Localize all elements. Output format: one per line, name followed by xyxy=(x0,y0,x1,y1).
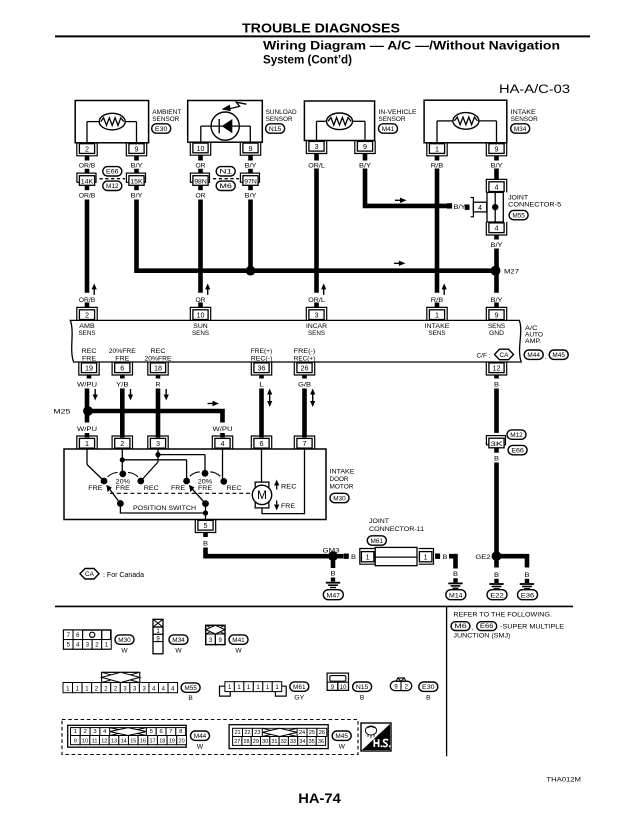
contact 20%FRE1 xyxy=(108,471,138,493)
ambient sensor label xyxy=(152,109,181,123)
svg-text:GND: GND xyxy=(489,330,504,337)
svg-text:20%FRE: 20%FRE xyxy=(109,348,137,355)
svg-text:OR/L: OR/L xyxy=(308,162,325,169)
svg-text:5: 5 xyxy=(204,521,208,530)
svg-text:B: B xyxy=(494,382,499,389)
connector refs M44 M45 xyxy=(524,350,568,361)
connector ref M34 oval xyxy=(169,635,188,654)
svg-text:GE2: GE2 xyxy=(475,554,491,561)
junction GM3 xyxy=(323,547,341,561)
svg-text:THA012M: THA012M xyxy=(546,776,581,783)
svg-text:SENSOR: SENSOR xyxy=(511,116,538,123)
svg-text:M44: M44 xyxy=(194,733,207,740)
svg-text:M61: M61 xyxy=(371,538,384,545)
connector ref M44 oval xyxy=(191,731,210,751)
wire OR/B ambient to amp pin 2 xyxy=(85,200,90,293)
svg-text:B/Y: B/Y xyxy=(245,193,258,200)
H.S. icon xyxy=(361,723,391,751)
svg-text:W: W xyxy=(121,647,128,654)
switch wiring pin4 to REC2 xyxy=(222,449,224,481)
svg-text:M30: M30 xyxy=(333,495,346,502)
svg-text:C/F :: C/F : xyxy=(477,353,491,360)
amp terminal label 20%FRE FRE xyxy=(109,348,137,362)
svg-text:W: W xyxy=(235,647,242,654)
svg-text:1: 1 xyxy=(435,311,439,320)
wire L amp 36 to motor pin 6 xyxy=(259,389,264,438)
svg-text:B: B xyxy=(331,571,336,578)
svg-text:SENS: SENS xyxy=(488,323,506,330)
svg-text:97N: 97N xyxy=(244,178,257,185)
svg-text:M41: M41 xyxy=(382,126,395,133)
position switch label xyxy=(133,505,196,512)
svg-text:10: 10 xyxy=(197,144,205,153)
svg-text:E66: E66 xyxy=(480,623,494,630)
wire label OR xyxy=(196,193,206,200)
svg-text:B/Y: B/Y xyxy=(359,162,372,169)
svg-text:29: 29 xyxy=(253,739,259,745)
wire label B below 3K xyxy=(494,456,499,463)
intake door motor M30 box xyxy=(64,449,326,520)
svg-text:M: M xyxy=(257,490,267,502)
motor pin 7 xyxy=(294,436,314,449)
svg-text:B: B xyxy=(525,572,530,579)
svg-text:System (Cont’d): System (Cont’d) xyxy=(263,53,352,67)
svg-text:B/Y: B/Y xyxy=(491,162,504,169)
intake sensor label xyxy=(511,109,538,123)
svg-text:33: 33 xyxy=(290,739,296,745)
svg-text:TROUBLE DIAGNOSES: TROUBLE DIAGNOSES xyxy=(242,21,400,36)
svg-text:B/Y: B/Y xyxy=(245,162,258,169)
svg-text:E66: E66 xyxy=(511,448,524,455)
contact FRE1 xyxy=(88,478,107,493)
joint connector-5 left pin 4 xyxy=(465,198,487,217)
switch common link to pin 5 xyxy=(120,504,208,520)
svg-text:W/PU: W/PU xyxy=(77,426,97,433)
svg-text:17: 17 xyxy=(150,738,156,744)
svg-text:.: . xyxy=(545,354,547,361)
svg-text:B: B xyxy=(203,540,208,547)
svg-text:SUN: SUN xyxy=(193,323,208,330)
svg-text:B: B xyxy=(494,572,499,579)
svg-text:3K: 3K xyxy=(490,441,504,448)
GM3 stub to joint connector-11 xyxy=(338,554,357,562)
amp pin 2 xyxy=(77,303,97,321)
svg-text:3: 3 xyxy=(315,311,319,320)
amp terminal label SUN SENS xyxy=(192,323,210,337)
in-vehicle sensor label xyxy=(379,109,418,123)
smj link E66/M12 xyxy=(100,167,126,191)
svg-text:18: 18 xyxy=(159,738,165,744)
svg-text:10: 10 xyxy=(82,738,88,744)
wire label OR/B xyxy=(79,193,96,200)
svg-text:-SUPER MULTIPLE: -SUPER MULTIPLE xyxy=(500,623,565,630)
svg-text:AMB: AMB xyxy=(79,323,95,330)
wire label Y/B xyxy=(116,382,129,389)
wire label OR/L at amp xyxy=(308,297,325,304)
svg-text:MOTOR: MOTOR xyxy=(330,484,354,491)
svg-text:R/B: R/B xyxy=(431,162,444,169)
svg-text:12: 12 xyxy=(101,738,107,744)
amp pin 18 xyxy=(148,362,168,379)
wire label B/Y below joint connector-5 xyxy=(491,242,504,249)
figure code THA012M xyxy=(546,776,581,783)
contact FRE2 xyxy=(171,478,190,493)
svg-text:L: L xyxy=(259,382,264,389)
wire label OR/L xyxy=(308,162,325,169)
motor direction FRE xyxy=(274,501,296,511)
amp pin 36 xyxy=(251,362,271,379)
ambient sensor pin 2 xyxy=(77,143,97,161)
in-vehicle sensor pin 3 xyxy=(306,141,326,161)
svg-text:B/Y: B/Y xyxy=(454,204,467,211)
svg-text:OR: OR xyxy=(196,193,206,200)
direction arrow on B/Y link xyxy=(395,198,407,203)
svg-text:2: 2 xyxy=(84,729,87,735)
wire OR/L in-vehicle to amp pin 3 xyxy=(314,169,319,293)
wire B/Y M27 to amp pin 9 xyxy=(494,271,499,293)
amp terminal label INCAR SENS xyxy=(306,323,327,337)
connector view M45 xyxy=(229,725,328,749)
svg-text:7: 7 xyxy=(169,729,172,735)
svg-text:FRE: FRE xyxy=(171,485,186,492)
svg-text:HA-A/C-03: HA-A/C-03 xyxy=(499,82,570,96)
svg-text:W: W xyxy=(339,744,346,751)
svg-text:1: 1 xyxy=(435,144,439,153)
connector ref M30 xyxy=(330,493,349,502)
connector ref N15 oval xyxy=(353,682,372,701)
wire label R xyxy=(156,382,161,389)
svg-text:4: 4 xyxy=(495,224,499,233)
svg-text:E30: E30 xyxy=(155,126,168,133)
connector view M34 xyxy=(153,619,163,654)
wire R amp 18 to motor pin 3 xyxy=(156,389,161,438)
wire label R/B xyxy=(431,162,444,169)
svg-text:21: 21 xyxy=(234,730,240,736)
junction M25 xyxy=(53,406,93,416)
svg-text:INTAKE: INTAKE xyxy=(330,469,356,476)
wire B/Y joint connector-5 to M27 xyxy=(494,249,499,271)
motor symbol xyxy=(252,449,304,514)
connector view E30 xyxy=(390,678,411,691)
svg-text:JUNCTION (SMJ): JUNCTION (SMJ) xyxy=(453,633,510,640)
svg-text:B: B xyxy=(443,554,448,561)
junction GE2 xyxy=(475,551,501,561)
svg-text:6: 6 xyxy=(159,729,162,735)
svg-text:W: W xyxy=(197,744,204,751)
svg-text:W/PU: W/PU xyxy=(77,382,97,389)
intake sensor pin 9 xyxy=(486,143,506,161)
amp pin 12 xyxy=(486,362,506,379)
connector ref M30 oval xyxy=(115,635,134,654)
wire label B/Y xyxy=(131,162,144,169)
svg-text:AMBIENT: AMBIENT xyxy=(152,109,181,116)
wire label R/B at amp xyxy=(431,297,444,304)
svg-text:M6: M6 xyxy=(454,623,467,630)
svg-text:M12: M12 xyxy=(106,183,119,190)
connector view M61 xyxy=(220,682,287,696)
svg-text:W/PU: W/PU xyxy=(213,426,233,433)
svg-text:FRE: FRE xyxy=(115,355,130,362)
svg-text:M30: M30 xyxy=(118,637,131,644)
svg-text:FRE: FRE xyxy=(281,503,296,510)
junction M27 xyxy=(491,266,520,276)
subtitle Wiring Diagram line 2 xyxy=(263,53,352,67)
connector view M44 xyxy=(68,725,187,747)
connector ref E30 xyxy=(152,124,171,133)
amp pin 9 xyxy=(486,303,506,321)
svg-text:B/Y: B/Y xyxy=(131,162,144,169)
title underline rule xyxy=(55,35,590,37)
wire label B below amp xyxy=(494,382,499,389)
svg-text:M55: M55 xyxy=(184,685,197,692)
ground wire below GE2 xyxy=(494,561,499,579)
refer-to text xyxy=(453,611,552,618)
wire label B/Y at amp xyxy=(491,297,504,304)
amp terminal label FRE(-) REC(+) xyxy=(294,348,316,362)
svg-text:B: B xyxy=(188,695,193,702)
connector view M30 xyxy=(64,630,112,649)
ground E22 xyxy=(487,579,507,600)
arrow down on W/PU xyxy=(93,389,98,401)
wire label B/Y xyxy=(491,162,504,169)
svg-text:REC: REC xyxy=(227,485,242,492)
wire B pin5 to GM3 xyxy=(206,548,334,557)
svg-text:JOINT: JOINT xyxy=(369,518,389,525)
svg-text:FRE: FRE xyxy=(88,485,103,492)
sunload sensor label xyxy=(266,109,297,123)
svg-text:SENS: SENS xyxy=(192,330,210,337)
svg-text:E36: E36 xyxy=(521,592,535,599)
svg-text:REC: REC xyxy=(144,485,159,492)
diagram id HA-A/C-03 xyxy=(499,82,570,96)
arrow into amp pin 3 xyxy=(321,283,326,295)
wire G/B amp 26 to motor pin 7 xyxy=(302,389,307,438)
svg-text:OR: OR xyxy=(196,162,206,169)
svg-text:FRE(+): FRE(+) xyxy=(251,348,273,355)
svg-text:2: 2 xyxy=(85,311,89,320)
svg-text:Y/B: Y/B xyxy=(116,382,129,389)
svg-text:8: 8 xyxy=(179,729,182,735)
canada note xyxy=(80,569,144,580)
A/C auto amp body xyxy=(70,320,521,362)
joint connector-11 right stub xyxy=(435,554,447,562)
svg-text:36: 36 xyxy=(318,739,324,745)
svg-text:M47: M47 xyxy=(327,592,341,599)
double arrow on L xyxy=(267,389,272,408)
wire label OR xyxy=(196,162,206,169)
svg-text:1: 1 xyxy=(85,439,89,448)
svg-text:M61: M61 xyxy=(293,684,306,691)
connector view N15 xyxy=(327,673,348,691)
wire label G/B xyxy=(298,382,311,389)
svg-text:B: B xyxy=(360,694,365,701)
joint connector-11 M61 xyxy=(360,518,434,566)
svg-text:INTAKE: INTAKE xyxy=(511,109,537,116)
svg-text:4: 4 xyxy=(478,203,482,212)
intake sensor M34 box xyxy=(424,100,507,143)
switch wiring pin3 to REC1 and 20%FRE2 xyxy=(141,449,205,481)
svg-text:SENSOR: SENSOR xyxy=(152,116,179,123)
svg-text:5: 5 xyxy=(150,729,153,735)
wire stub into motor pin 4 xyxy=(220,433,225,438)
arrow into amp pin 2 xyxy=(92,283,97,295)
amp pin 3 xyxy=(306,303,326,321)
svg-text:M45: M45 xyxy=(552,352,565,359)
svg-text:N15: N15 xyxy=(269,126,282,133)
C/F canada flag note xyxy=(477,349,514,360)
svg-text:FRE: FRE xyxy=(116,485,131,492)
svg-text:N1: N1 xyxy=(219,169,232,176)
svg-text:M34: M34 xyxy=(514,126,527,133)
ground E36 xyxy=(518,579,538,600)
amp terminal label REC 20%FRE xyxy=(145,348,173,362)
svg-text:M6: M6 xyxy=(219,183,232,190)
amp pin 26 xyxy=(294,362,314,379)
junction dot sunload B/Y xyxy=(246,266,256,276)
svg-text:20%FRE: 20%FRE xyxy=(145,355,173,362)
svg-text:6: 6 xyxy=(260,439,264,448)
svg-text:4: 4 xyxy=(221,439,225,448)
svg-text:M27: M27 xyxy=(504,269,520,276)
switch arm 1 xyxy=(106,485,124,507)
svg-text:R: R xyxy=(156,382,161,389)
svg-text:REFER TO THE FOLLOWING.: REFER TO THE FOLLOWING. xyxy=(453,611,552,618)
svg-text:M14: M14 xyxy=(449,592,463,599)
svg-text:11: 11 xyxy=(92,738,98,744)
svg-text:3: 3 xyxy=(93,729,96,735)
wire B 3K to GE2 xyxy=(494,463,499,557)
amp pin 19 xyxy=(79,362,99,379)
svg-text:32: 32 xyxy=(281,739,287,745)
svg-text:23: 23 xyxy=(254,730,260,736)
svg-text:1: 1 xyxy=(366,555,370,562)
svg-text:,: , xyxy=(471,625,473,632)
sunload sensor pin 9 xyxy=(240,142,260,160)
svg-text:G/B: G/B xyxy=(298,382,311,389)
svg-text:20: 20 xyxy=(179,738,185,744)
amp terminal label FRE(+) REC(-) xyxy=(251,348,273,362)
connector ref M41 oval xyxy=(229,635,248,654)
wire label B/Y xyxy=(245,193,258,200)
svg-text:9: 9 xyxy=(74,738,77,744)
svg-text:B: B xyxy=(453,571,458,578)
position switch dashed line xyxy=(110,492,252,494)
inline connector 98N xyxy=(190,169,209,190)
svg-text:19: 19 xyxy=(85,364,93,373)
svg-text:1: 1 xyxy=(74,729,77,735)
svg-text:CA: CA xyxy=(500,352,510,359)
wire label B/Y xyxy=(131,193,144,200)
direction arrow on M25 bus xyxy=(208,401,220,406)
ambient sensor E30 box xyxy=(75,101,148,143)
motor pin 2 xyxy=(112,436,132,449)
svg-text:10: 10 xyxy=(197,311,205,320)
connector ref M55 oval xyxy=(181,683,200,702)
svg-text:22: 22 xyxy=(244,730,250,736)
connector view M41 xyxy=(206,625,225,644)
double arrow on G/B xyxy=(310,389,315,408)
motor pin 1 xyxy=(77,436,97,449)
svg-text:34: 34 xyxy=(299,739,305,745)
sunload sensor photodiode xyxy=(201,102,251,142)
amp pin 1 xyxy=(427,303,447,321)
svg-text:9: 9 xyxy=(135,144,139,153)
connector ref M55 xyxy=(509,210,528,219)
intake sensor thermistor xyxy=(437,113,497,143)
svg-text:9: 9 xyxy=(495,144,499,153)
motor pin 3 xyxy=(148,436,168,449)
svg-text:REC: REC xyxy=(82,348,97,355)
svg-text:E66: E66 xyxy=(106,169,119,176)
svg-text:16: 16 xyxy=(140,738,146,744)
ground M47 xyxy=(323,578,343,600)
connector view M55 xyxy=(63,672,178,692)
GE2 branch to E36 xyxy=(497,556,528,567)
svg-text:15K: 15K xyxy=(130,178,143,185)
smj link N1/M6 xyxy=(213,167,239,191)
svg-text:B/Y: B/Y xyxy=(491,242,504,249)
switch arm 2 xyxy=(189,485,209,507)
wire stub into motor pin 1 xyxy=(85,433,90,438)
svg-text:6: 6 xyxy=(120,364,124,373)
svg-text:26: 26 xyxy=(319,730,325,736)
ambient sensor pin 9 xyxy=(126,143,146,161)
amp pin 10 xyxy=(190,303,210,321)
title TROUBLE DIAGNOSES xyxy=(242,21,400,36)
wire W/PU amp 19 to M25 xyxy=(85,389,90,412)
motor pin 6 xyxy=(251,436,271,449)
svg-text:7: 7 xyxy=(303,439,307,448)
svg-text:M55: M55 xyxy=(512,213,525,220)
svg-text:JOINT: JOINT xyxy=(508,194,528,201)
svg-text:35: 35 xyxy=(309,739,315,745)
motor label xyxy=(330,469,356,491)
arrow into amp pin 1 xyxy=(442,283,447,295)
svg-text:OR/B: OR/B xyxy=(79,162,96,169)
svg-text:SENSOR: SENSOR xyxy=(266,116,293,123)
contact REC2 xyxy=(220,478,241,492)
wire label B at E36 branch xyxy=(525,572,530,579)
inline connector 3K xyxy=(486,436,505,453)
svg-text:B: B xyxy=(494,456,499,463)
ground wire to M14 xyxy=(449,556,458,578)
contact REC1 xyxy=(137,478,159,493)
wire label L xyxy=(259,382,264,389)
wire label B/Y at joint connector-5 xyxy=(454,204,467,211)
separator rule xyxy=(55,605,573,607)
svg-text:14K: 14K xyxy=(81,178,94,185)
wire B/Y in-vehicle to joint connector-5 xyxy=(365,169,452,209)
ground M14 xyxy=(446,578,466,600)
contact 20%FRE2 xyxy=(190,470,220,492)
ground wire below GM3 xyxy=(331,561,336,578)
svg-text:B: B xyxy=(351,554,356,561)
svg-text:CONNECTOR-5: CONNECTOR-5 xyxy=(508,202,561,209)
svg-text:2: 2 xyxy=(85,144,89,153)
motor pin 5 xyxy=(195,520,215,538)
svg-text:27: 27 xyxy=(234,739,240,745)
amp pin 6 xyxy=(112,362,132,379)
sunload sensor N15 box xyxy=(188,101,263,143)
svg-text:M41: M41 xyxy=(232,637,245,644)
switch wiring pin2 to 20%FRE1 and FRE2 xyxy=(120,449,187,481)
wire B amp 12 to 3K connector xyxy=(494,389,499,433)
svg-text:E30: E30 xyxy=(422,684,435,691)
svg-text:M12: M12 xyxy=(510,432,523,439)
joint connector-5 label xyxy=(508,194,561,208)
svg-text:3: 3 xyxy=(156,439,160,448)
svg-text:CONNECTOR-11: CONNECTOR-11 xyxy=(369,526,424,533)
